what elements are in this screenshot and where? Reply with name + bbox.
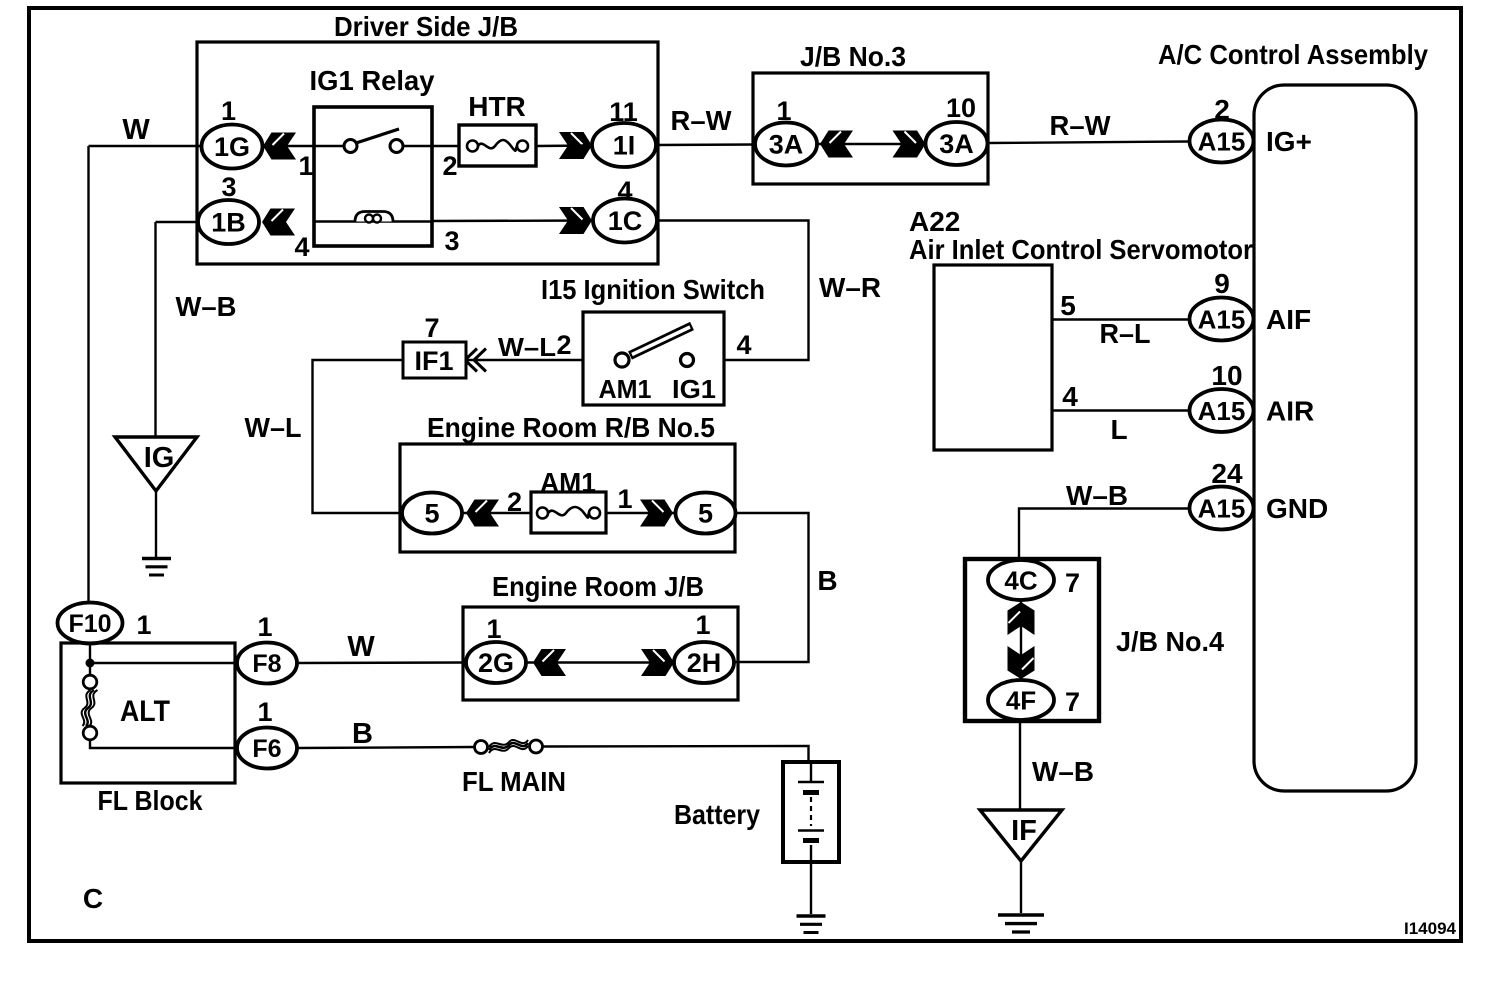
wire IF1 to ignition switch with label W-L 2 — [467, 359, 583, 361]
open chevrons at IF1 — [465, 349, 486, 372]
wire FL MAIN to battery — [543, 746, 809, 762]
wire pin5 to AIF with label R-L — [1052, 318, 1190, 320]
wire junction to F8 — [89, 643, 91, 676]
ground under IG — [142, 559, 171, 576]
svg-text:FL MAIN: FL MAIN — [462, 766, 566, 797]
svg-text:11: 11 — [609, 97, 638, 127]
svg-text:A/C Control Assembly: A/C Control Assembly — [1158, 39, 1428, 70]
svg-text:W–R: W–R — [819, 272, 881, 303]
wire F6 to battery with label B — [297, 747, 475, 748]
svg-text:1I: 1I — [613, 131, 636, 161]
wire right 5 down to 2H with label B — [734, 513, 809, 662]
wire F8 to 2G with label W — [297, 661, 466, 664]
svg-text:9: 9 — [1214, 268, 1230, 299]
connector 3A right — [926, 122, 988, 165]
wire alt bottom to F6 — [90, 740, 238, 748]
connector 5 right — [676, 493, 736, 534]
wire between 5 connectors — [462, 512, 531, 514]
triangle IG — [115, 437, 197, 491]
connector 2H — [674, 642, 734, 683]
svg-text:5: 5 — [424, 499, 439, 529]
svg-text:2: 2 — [507, 487, 522, 517]
fuse AM1 box — [531, 492, 606, 533]
Engine Room R/B No.5 box — [400, 444, 735, 552]
wire between 3A connectors — [817, 143, 926, 145]
svg-text:2: 2 — [442, 151, 457, 181]
arrow into 1I — [559, 132, 592, 159]
svg-text:B: B — [817, 565, 837, 596]
svg-text:5: 5 — [1060, 290, 1076, 321]
svg-text:Engine Room R/B No.5: Engine Room R/B No.5 — [427, 412, 715, 443]
svg-text:I15 Ignition Switch: I15 Ignition Switch — [541, 274, 765, 305]
svg-text:I14094: I14094 — [1404, 919, 1457, 938]
svg-text:Driver Side J/B: Driver Side J/B — [334, 11, 518, 42]
svg-text:1: 1 — [136, 610, 151, 640]
fuse IF1 box — [403, 342, 466, 378]
svg-text:10: 10 — [1211, 360, 1242, 391]
svg-text:2: 2 — [1214, 94, 1230, 125]
relay switch lever — [356, 129, 399, 143]
FL block box ALT — [61, 643, 235, 783]
svg-text:F10: F10 — [68, 610, 111, 638]
arrow into 1G — [263, 133, 296, 160]
wire between 2G and 2H — [526, 661, 674, 663]
svg-text:4: 4 — [294, 232, 309, 262]
svg-text:W–B: W–B — [1032, 756, 1094, 787]
svg-text:4: 4 — [736, 330, 751, 360]
connector 2G — [466, 642, 526, 683]
svg-text:7: 7 — [1065, 568, 1080, 598]
svg-text:2G: 2G — [478, 648, 514, 678]
wire IF1 left down to R/B No.5 — [313, 360, 404, 513]
ignition lever outlined — [630, 326, 692, 356]
J/B No.4 box — [965, 559, 1099, 721]
svg-text:A15: A15 — [1198, 396, 1246, 426]
arrow into left 3A — [820, 131, 853, 158]
wire IG to ground — [155, 491, 157, 557]
wire W horizontal from 1G to left drop — [89, 145, 203, 147]
wire 4C-4F internal — [1020, 598, 1022, 682]
svg-text:A22: A22 — [909, 206, 960, 237]
svg-text:L: L — [1110, 414, 1127, 445]
arrow into 1C — [559, 207, 592, 234]
connector A15 pin2 IG+ — [1190, 120, 1254, 163]
svg-text:7: 7 — [1065, 687, 1080, 717]
arrow into 1B — [262, 209, 295, 236]
svg-text:C: C — [83, 883, 103, 914]
svg-text:1: 1 — [776, 96, 791, 126]
svg-text:IG+: IG+ — [1266, 126, 1312, 157]
svg-text:IG1: IG1 — [672, 374, 716, 404]
arrow into 2H — [641, 649, 674, 676]
connector F6 — [237, 728, 297, 769]
wire 1B to left drop — [156, 221, 199, 223]
ground under IF — [998, 915, 1044, 932]
svg-text:4F: 4F — [1006, 686, 1036, 716]
svg-text:1: 1 — [298, 151, 313, 181]
svg-text:FL Block: FL Block — [98, 785, 203, 816]
arrow into right 5 — [640, 500, 673, 527]
svg-text:R–W: R–W — [1050, 110, 1112, 141]
fuse HTR box — [459, 125, 536, 166]
Engine Room J/B box — [463, 607, 738, 700]
arrow into left 5 — [466, 500, 499, 527]
connector 5 left — [402, 493, 462, 534]
node junction dot — [86, 659, 95, 668]
svg-text:1: 1 — [221, 96, 236, 126]
svg-text:R–L: R–L — [1100, 318, 1151, 349]
svg-text:A15: A15 — [1198, 494, 1246, 524]
connector 1C — [593, 199, 657, 243]
svg-text:24: 24 — [1211, 458, 1243, 489]
svg-text:W: W — [122, 114, 150, 146]
wire 1G to relay — [262, 145, 344, 147]
wire pin4 to AIR with label L — [1052, 409, 1190, 411]
connector A15 pin10 AIR — [1190, 389, 1254, 432]
svg-text:3A: 3A — [769, 130, 804, 160]
wire 1I to J/B No.3 with label R-W — [656, 143, 756, 146]
svg-text:10: 10 — [946, 93, 976, 123]
svg-text:1: 1 — [617, 484, 632, 514]
svg-text:R–W: R–W — [671, 105, 733, 136]
svg-text:ALT: ALT — [120, 695, 170, 728]
wire 4F down to IF triangle with label W-B — [1019, 720, 1021, 810]
svg-text:GND: GND — [1266, 493, 1328, 524]
svg-text:5: 5 — [698, 499, 713, 529]
triangle IF — [980, 810, 1062, 861]
wire coil to 1C arrow — [432, 219, 593, 222]
wire HTR to 1I — [536, 144, 593, 147]
svg-text:IF1: IF1 — [414, 346, 453, 376]
svg-text:1B: 1B — [211, 208, 246, 238]
svg-text:J/B No.4: J/B No.4 — [1116, 626, 1224, 657]
svg-text:F6: F6 — [252, 735, 281, 763]
svg-text:Battery: Battery — [674, 799, 760, 830]
svg-text:3: 3 — [221, 172, 236, 202]
wire 3A to A15 IG+ with label R-W — [988, 142, 1190, 144]
relay switch contact circles — [344, 140, 357, 153]
svg-text:A15: A15 — [1198, 127, 1246, 157]
servomotor A22 box — [934, 265, 1052, 450]
ignition switch I15 box — [583, 312, 724, 405]
svg-text:F8: F8 — [252, 650, 281, 678]
svg-text:HTR: HTR — [468, 91, 526, 122]
svg-text:W–L: W–L — [245, 412, 302, 443]
svg-text:Engine Room J/B: Engine Room J/B — [492, 571, 704, 602]
svg-text:3A: 3A — [939, 129, 974, 159]
connector 4F — [988, 680, 1054, 720]
relay IG1 box — [314, 107, 432, 246]
svg-text:W–L: W–L — [498, 332, 556, 362]
svg-text:AM1: AM1 — [599, 374, 652, 404]
svg-text:W–B: W–B — [1066, 480, 1128, 511]
svg-text:AIR: AIR — [1266, 396, 1314, 427]
wire IF to ground — [1020, 861, 1022, 913]
arrow up to 4C — [1008, 602, 1035, 635]
connector 4C — [988, 560, 1054, 600]
svg-text:4C: 4C — [1004, 566, 1037, 596]
arrow into 2G — [533, 649, 566, 676]
relay coil bump — [355, 212, 393, 222]
svg-text:1G: 1G — [214, 132, 250, 162]
Driver Side J/B box — [197, 42, 658, 264]
svg-text:1: 1 — [257, 697, 272, 727]
svg-text:3: 3 — [444, 226, 459, 256]
connector F8 — [237, 643, 297, 684]
wire ignition pin4 up to 1C with label W-R — [657, 221, 809, 361]
connector A15 pin24 GND — [1190, 487, 1254, 530]
svg-text:1: 1 — [257, 612, 272, 642]
svg-text:1: 1 — [695, 610, 710, 640]
svg-text:J/B No.3: J/B No.3 — [800, 41, 906, 72]
svg-text:IG: IG — [144, 442, 175, 474]
ignition contacts — [615, 353, 629, 367]
fusible link FL MAIN — [475, 741, 488, 754]
svg-text:IF: IF — [1011, 815, 1037, 847]
connector 1G — [202, 125, 263, 169]
svg-text:Air Inlet Control Servomotor: Air Inlet Control Servomotor — [909, 234, 1253, 265]
A/C Control Assembly body — [1254, 85, 1416, 791]
arrow into right 3A — [893, 131, 926, 158]
connector A15 pin9 AIF — [1190, 298, 1254, 341]
svg-text:2: 2 — [556, 330, 571, 360]
svg-text:AIF: AIF — [1266, 304, 1311, 335]
wire GND to J/B No.4 with label W-B — [1019, 509, 1190, 563]
svg-text:W–B: W–B — [176, 291, 237, 322]
svg-text:4: 4 — [1062, 381, 1078, 412]
ground under battery — [797, 916, 826, 933]
svg-text:7: 7 — [424, 313, 439, 343]
svg-text:IG1 Relay: IG1 Relay — [310, 65, 435, 96]
svg-text:1C: 1C — [608, 206, 643, 236]
connector 3A left — [755, 123, 817, 166]
svg-text:A15: A15 — [1198, 305, 1246, 335]
J/B No.3 box — [753, 73, 988, 184]
wire W vertical drop to F10 — [87, 146, 89, 604]
svg-text:B: B — [352, 718, 373, 750]
connector 1B — [198, 200, 259, 244]
arrow down to 4F — [1008, 646, 1035, 679]
relay coil row wire — [314, 220, 432, 222]
alternator fusible link symbol — [83, 675, 97, 689]
wire relay pin2 to HTR — [403, 145, 459, 147]
svg-text:2H: 2H — [687, 648, 722, 678]
connector F10 — [58, 603, 123, 644]
svg-text:4: 4 — [617, 176, 632, 206]
svg-text:1: 1 — [486, 614, 501, 644]
connector 1I — [592, 123, 656, 167]
svg-text:W: W — [347, 631, 375, 663]
